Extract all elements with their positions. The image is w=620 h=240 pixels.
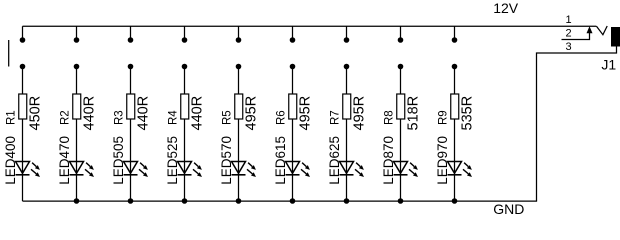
- svg-text:440R: 440R: [136, 96, 152, 131]
- svg-text:J1: J1: [601, 57, 616, 73]
- svg-text:495R: 495R: [352, 96, 368, 131]
- svg-text:1: 1: [565, 14, 571, 26]
- svg-text:440R: 440R: [190, 96, 206, 131]
- svg-text:LED505: LED505: [111, 136, 126, 185]
- svg-text:518R: 518R: [406, 96, 422, 131]
- svg-text:R2: R2: [60, 110, 72, 125]
- svg-text:440R: 440R: [82, 96, 98, 131]
- svg-text:R9: R9: [438, 110, 450, 125]
- svg-text:12V: 12V: [493, 0, 519, 16]
- svg-text:R4: R4: [168, 110, 180, 125]
- svg-text:495R: 495R: [298, 96, 314, 131]
- svg-text:LED625: LED625: [327, 136, 342, 185]
- svg-text:R5: R5: [222, 110, 234, 125]
- svg-text:LED525: LED525: [165, 136, 180, 185]
- svg-text:495R: 495R: [244, 96, 260, 131]
- svg-text:3: 3: [565, 41, 571, 53]
- svg-text:LED400: LED400: [3, 136, 18, 185]
- svg-text:R6: R6: [276, 110, 288, 125]
- svg-text:R8: R8: [384, 110, 396, 125]
- svg-text:R1: R1: [6, 110, 18, 125]
- svg-text:R3: R3: [114, 110, 126, 125]
- svg-text:450R: 450R: [28, 96, 44, 131]
- svg-text:535R: 535R: [460, 96, 476, 131]
- svg-text:GND: GND: [493, 201, 524, 217]
- svg-text:R7: R7: [330, 110, 342, 125]
- svg-text:LED470: LED470: [57, 136, 72, 185]
- svg-text:LED570: LED570: [219, 136, 234, 185]
- svg-text:LED970: LED970: [435, 136, 450, 185]
- svg-text:LED870: LED870: [381, 136, 396, 185]
- svg-text:LED615: LED615: [273, 136, 288, 185]
- svg-text:2: 2: [565, 27, 571, 39]
